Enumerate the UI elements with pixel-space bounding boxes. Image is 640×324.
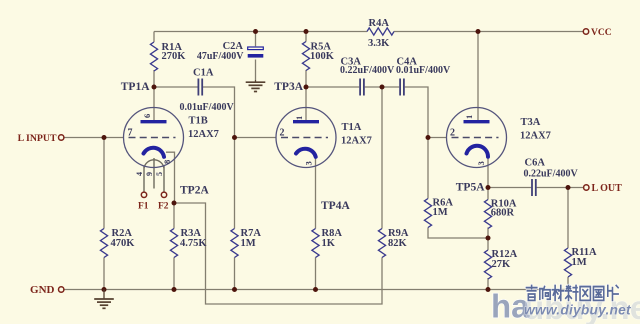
junction R12A ground [486, 287, 491, 292]
T1B grid [129, 137, 176, 139]
svg-text:www.diybuy.net: www.diybuy.net [524, 303, 632, 318]
node TP1A junction [152, 85, 157, 90]
wire heater pin 9 lead [153, 158, 155, 189]
junction R7A ground [232, 287, 237, 292]
node TP2A junction [172, 201, 177, 206]
svg-text:3: 3 [304, 161, 314, 165]
junction R5A at VCC rail [304, 29, 309, 34]
junction C2A at VCC rail [253, 29, 258, 34]
svg-text:F2: F2 [158, 202, 169, 212]
terminal GND [59, 287, 64, 292]
wire node to R6A [427, 138, 429, 199]
wire input node to R2A [103, 138, 105, 229]
wire R8A to ground rail [315, 258, 317, 290]
terminal L OUT [584, 185, 589, 190]
junction T3A plate at VCC rail [476, 29, 481, 34]
wire rail to C2A [255, 32, 257, 47]
wire VCC rail left segment [154, 31, 367, 33]
svg-text:C6A: C6A [525, 158, 546, 169]
triode T1B envelope [124, 108, 184, 168]
triode T3A envelope [447, 108, 507, 168]
capacitor C3A [359, 79, 361, 96]
svg-text:9: 9 [145, 172, 154, 176]
wire R1A bottom lead [153, 70, 155, 87]
node TP5A junction [486, 185, 491, 190]
resistor R9A [378, 229, 385, 258]
resistor R2A [100, 229, 107, 258]
ground [103, 290, 105, 300]
svg-text:F1: F1 [138, 202, 149, 212]
svg-text:2: 2 [280, 127, 285, 138]
junction T3A grid node [426, 135, 431, 140]
wire R1A top lead [153, 32, 155, 43]
wire TP1A to C1A [154, 86, 198, 88]
svg-text:0.22uF/400V: 0.22uF/400V [524, 169, 579, 180]
wire TP2A to R3A [173, 203, 175, 229]
resistor R5A [302, 42, 309, 71]
wire C6A to L OUT [537, 187, 584, 189]
capacitor C1A [197, 79, 199, 96]
wire node to R12A [487, 238, 489, 250]
svg-text:C1A: C1A [193, 68, 214, 79]
wire C1A to T1A grid node [203, 87, 235, 138]
wire R12A to ground rail [487, 278, 489, 290]
wire node to R7A [234, 138, 236, 229]
svg-text:12AX7: 12AX7 [341, 136, 372, 147]
wire VCC rail right segment [394, 31, 583, 33]
junction R6A R10A R12A [486, 236, 491, 241]
terminal F1 [141, 192, 146, 197]
watermark chinese text 音响材料网图片 [526, 286, 536, 301]
wire C3A-C4A node to R9A [381, 87, 383, 229]
svg-text:L INPUT: L INPUT [18, 133, 57, 144]
wire TP3A to C3A [306, 86, 359, 88]
wire output node to R11A [567, 188, 569, 249]
junction C6A R11A output [566, 185, 571, 190]
svg-text:TP4A: TP4A [321, 200, 350, 212]
svg-text:470K: 470K [111, 238, 136, 249]
wire T1A plate lead [305, 87, 307, 121]
T3A grid [452, 137, 499, 139]
capacitor C2A [248, 47, 264, 50]
T1A cathode [296, 149, 316, 157]
junction R8A ground [313, 287, 318, 292]
wire R11A to ground rail [567, 277, 569, 290]
wire heater pin 5 lead [163, 166, 165, 192]
svg-text:2: 2 [450, 127, 455, 138]
junction R3A ground [172, 287, 177, 292]
junction T1A grid node [232, 135, 237, 140]
svg-text:8: 8 [162, 160, 172, 164]
resistor R1A [150, 42, 157, 71]
svg-text:6: 6 [142, 114, 152, 118]
wire ground rail [64, 289, 569, 291]
T3A plate [464, 120, 490, 123]
svg-text:T1B: T1B [189, 116, 208, 127]
svg-text:7: 7 [128, 128, 133, 139]
wire node to T1A grid [235, 137, 277, 139]
svg-text:3: 3 [476, 161, 486, 165]
capacitor C4A [399, 79, 401, 96]
svg-text:TP1A: TP1A [121, 81, 150, 93]
svg-text:1M: 1M [572, 257, 587, 268]
svg-text:1M: 1M [433, 207, 448, 218]
capacitor C6A [531, 179, 533, 196]
svg-text:1: 1 [294, 116, 304, 120]
T1A plate [293, 120, 319, 123]
ground [255, 80, 257, 82]
wire TP5A to R10A [487, 188, 489, 200]
wire C4A to T3A grid node [405, 87, 428, 138]
wire R6A bottom to node [428, 228, 488, 239]
svg-text:TP5A: TP5A [456, 182, 485, 194]
T1A grid [281, 137, 328, 139]
wire T1A cathode to R8A [315, 157, 317, 228]
svg-text:0.22uF/400V: 0.22uF/400V [340, 65, 395, 76]
wire R2A to ground rail [103, 258, 105, 290]
node TP3A junction [304, 85, 309, 90]
T3A cathode [467, 146, 489, 157]
svg-text:1M: 1M [241, 238, 256, 249]
svg-text:270K: 270K [162, 51, 187, 62]
svg-text:R4A: R4A [369, 18, 390, 29]
wire R5A top lead [305, 32, 307, 42]
svg-text:100K: 100K [310, 51, 335, 62]
svg-text:TP2A: TP2A [180, 184, 209, 196]
T1B heater filament [144, 160, 164, 168]
terminal VCC [583, 29, 588, 34]
svg-text:1K: 1K [322, 238, 336, 249]
resistor R3A [170, 229, 177, 258]
junction R2A ground [102, 287, 107, 292]
wire T3A cathode to TP5A [487, 158, 489, 188]
svg-text:12AX7: 12AX7 [520, 131, 551, 142]
junction C3A C4A R9A [380, 85, 385, 90]
resistor R8A [312, 229, 319, 258]
svg-text:4: 4 [135, 172, 144, 176]
junction input R2A [102, 135, 107, 140]
wire C2A to ground [255, 60, 257, 81]
wire R7A to ground rail [234, 258, 236, 290]
svg-text:680R: 680R [491, 208, 515, 219]
triode T1A envelope [276, 108, 336, 168]
resistor R6A [424, 199, 431, 228]
svg-text:0.01uF/400V: 0.01uF/400V [396, 65, 451, 76]
wire L INPUT to T1B grid [64, 137, 124, 139]
svg-text:GND: GND [30, 284, 55, 296]
wire R5A bottom lead [305, 70, 307, 87]
svg-text:12AX7: 12AX7 [188, 129, 219, 140]
svg-text:82K: 82K [388, 238, 408, 249]
svg-text:T1A: T1A [342, 122, 362, 133]
svg-text:L OUT: L OUT [592, 183, 623, 194]
resistor R10A [484, 200, 491, 229]
resistor R4A [367, 28, 394, 35]
svg-text:VCC: VCC [591, 28, 612, 38]
wire T1B plate lead [153, 87, 155, 121]
resistor R12A [484, 250, 491, 279]
T1B plate [141, 120, 167, 123]
svg-text:0.01uF/400V: 0.01uF/400V [180, 102, 235, 113]
wire C3A to C4A [365, 86, 400, 88]
svg-text:3.3K: 3.3K [368, 38, 390, 49]
wire node to T3A grid [428, 137, 447, 139]
wire R10A bottom lead [487, 228, 489, 239]
wire T3A plate lead [477, 32, 479, 122]
wire T1B cathode to TP2A [166, 152, 175, 203]
T1B cathode [144, 148, 165, 157]
terminal F2 [161, 192, 166, 197]
resistor R7A [231, 229, 238, 258]
svg-text:47uF/400V: 47uF/400V [197, 51, 244, 62]
svg-text:1: 1 [464, 115, 474, 119]
wire R3A to ground rail [173, 258, 175, 290]
wire R9A feedback to TP2A [174, 203, 382, 304]
terminal L INPUT [59, 135, 64, 140]
svg-text:27K: 27K [492, 259, 512, 270]
wire TP5A to C6A [488, 187, 531, 189]
wire heater pin 4 lead [143, 166, 145, 192]
svg-text:5: 5 [155, 172, 164, 176]
svg-text:4.75K: 4.75K [180, 238, 207, 249]
svg-text:T3A: T3A [521, 117, 541, 128]
svg-text:TP3A: TP3A [274, 81, 303, 93]
resistor R11A [564, 248, 571, 277]
